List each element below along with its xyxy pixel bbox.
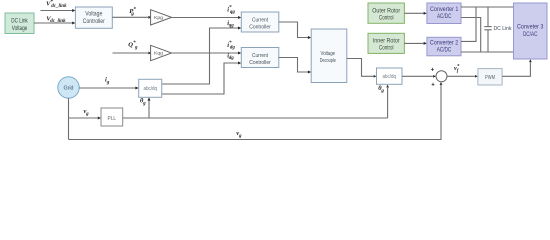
svg-text:Kqg: Kqg: [154, 51, 163, 57]
wire: V*_dc_link reference into Voltage Controller: [41, 9, 76, 12]
block: Voltage Controller: [75, 7, 112, 28]
svg-text:Current: Current: [252, 53, 268, 59]
svg-text:Current: Current: [252, 17, 268, 23]
svg-text:iqg: iqg: [227, 20, 234, 29]
svg-text:Voltage: Voltage: [85, 12, 103, 18]
svg-text:ig: ig: [105, 77, 110, 86]
svg-text:θg: θg: [140, 98, 146, 107]
block: Converter 2 AC/DC (purple): [427, 37, 461, 56]
svg-text:Converter 1: Converter 1: [430, 6, 459, 13]
summing junction: [431, 68, 447, 89]
block: Current Controller 1: [241, 12, 278, 32]
gain Kqg (triangle): [151, 45, 172, 60]
svg-text:idg: idg: [227, 53, 234, 62]
svg-text:Grid: Grid: [64, 86, 74, 92]
wire: v_g from Grid branch into PLL: [69, 117, 102, 120]
wire: V_dc_link from DC Link Voltage to Voltage Controller: [34, 22, 75, 25]
svg-text:Voltage: Voltage: [321, 51, 336, 57]
wire: i_g from Grid to abc/dq (1): [79, 87, 139, 90]
svg-text:Q*g: Q*g: [128, 41, 138, 50]
svg-text:θg: θg: [378, 85, 384, 94]
wire: Current Controller 1 to Voltage Decouple: [279, 22, 311, 39]
wire: theta_g from PLL line up into abc/dq (2): [386, 85, 389, 118]
svg-text:Control: Control: [379, 46, 394, 52]
svg-text:DC/AC: DC/AC: [523, 31, 538, 38]
wire: P*_g from Voltage Controller to gain Kpg: [112, 16, 151, 19]
svg-text:DC Link: DC Link: [11, 19, 28, 25]
block: Converter 1 AC/DC (purple): [427, 3, 461, 24]
svg-text:+: +: [431, 83, 435, 89]
block: abc/dq (2): [377, 68, 403, 84]
svg-text:Decouple: Decouple: [320, 58, 336, 64]
svg-text:Kpg: Kpg: [154, 15, 163, 21]
wire: Current Controller 2 to Voltage Decouple: [279, 58, 311, 74]
block: PLL: [101, 108, 123, 126]
svg-text:abc/dq: abc/dq: [382, 74, 396, 80]
gain Kpg (triangle): [151, 10, 172, 25]
svg-text:Control: Control: [379, 15, 394, 21]
wire: Converter 2 positive to top rail: [461, 7, 476, 41]
block: PWM: [478, 69, 502, 85]
node: Grid (circle): [58, 77, 79, 98]
block: Current Controller 2: [241, 48, 278, 68]
block: DC Link Voltage (green): [5, 13, 34, 34]
wire: theta_g stub up into abc/dq (1): [148, 97, 151, 118]
wire: theta_g line from PLL across to the right riser: [123, 117, 388, 119]
svg-text:v*f: v*f: [454, 64, 460, 73]
svg-text:Inner Rotor: Inner Rotor: [373, 39, 400, 45]
block: Converter 3 DC/AC (purple): [514, 3, 548, 59]
svg-text:vg: vg: [84, 108, 90, 117]
wire: i_dg feedback from abc/dq to Current Controller 2: [162, 62, 242, 94]
svg-text:i*qg: i*qg: [227, 6, 235, 15]
svg-text:Converter 2: Converter 2: [430, 39, 459, 46]
wire: DC bus bottom rail (Converter 2 - to Converter 3): [461, 51, 514, 53]
block: abc/dq (1): [139, 79, 162, 97]
wire: Grid down to v_g branch and bottom bus: [68, 98, 70, 139]
wire: Converter 1 negative to bottom rail: [461, 18, 481, 53]
svg-text:PWM: PWM: [485, 75, 495, 81]
svg-text:vg: vg: [236, 130, 242, 139]
wire: abc/dq (2) to summing junction: [402, 75, 436, 78]
svg-text:Controller: Controller: [249, 24, 271, 30]
capacitor: DC Link: [484, 7, 491, 52]
wire: i*_qg from Kpg to Current Controller 1: [172, 16, 242, 19]
svg-text:abc/dq: abc/dq: [143, 86, 157, 92]
wire: v*_f from summing junction to PWM: [447, 75, 478, 78]
wire: v_g bottom bus from Grid to summing junction: [69, 82, 443, 140]
block: Outer Rotor Control (green): [368, 3, 404, 23]
svg-text:Controller: Controller: [83, 19, 105, 25]
svg-text:P*g: P*g: [129, 7, 136, 16]
svg-text:i*dg: i*dg: [227, 41, 235, 50]
svg-text:Outer Rotor: Outer Rotor: [372, 8, 400, 14]
wire: i*_dg from Kqg to Current Controller 2: [172, 52, 242, 55]
wire: i_qg feedback from abc/dq to Current Controller 1: [162, 27, 242, 84]
wire: DC bus top rail (Converter 1 + to Converter 3): [461, 6, 514, 8]
svg-text:V*dc_link: V*dc_link: [46, 0, 67, 9]
wire: Q*_g reference into gain Kqg: [113, 52, 152, 55]
svg-text:Controller: Controller: [249, 60, 271, 66]
block: Voltage Decouple: [311, 29, 347, 83]
wire: Outer Rotor Control to Converter 1: [404, 12, 427, 15]
wire: PWM output up into Converter 3: [502, 59, 532, 76]
block: Inner Rotor Control (green): [368, 33, 404, 53]
wire: Voltage Decouple to abc/dq (2): [347, 59, 377, 78]
svg-text:AC/DC: AC/DC: [437, 46, 452, 53]
svg-text:Conveter 3: Conveter 3: [517, 24, 544, 31]
wire: Inner Rotor Control to Converter 2: [404, 42, 427, 45]
svg-text:+: +: [431, 68, 435, 74]
svg-text:Voltage: Voltage: [12, 26, 28, 32]
svg-text:PLL: PLL: [108, 116, 117, 122]
svg-text:AC/DC: AC/DC: [437, 13, 452, 20]
svg-text:DC Link: DC Link: [494, 26, 512, 32]
